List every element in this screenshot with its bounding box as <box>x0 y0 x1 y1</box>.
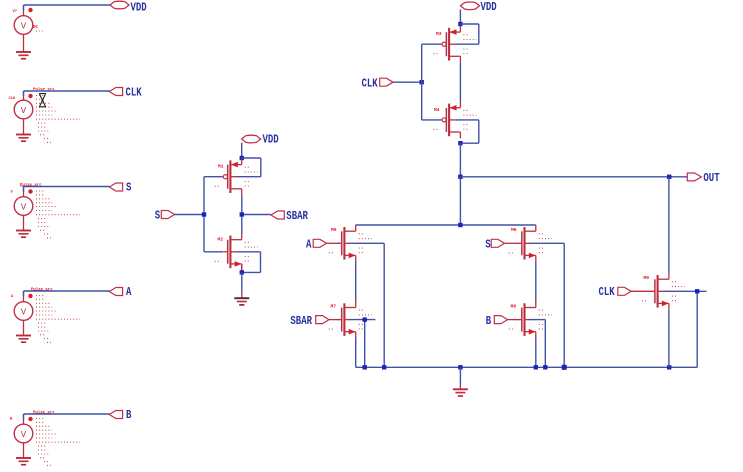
svg-text:M1: M1 <box>218 164 224 170</box>
wire (gate lead B) <box>508 319 519 321</box>
svg-text:SBAR: SBAR <box>286 209 308 223</box>
nmos M2 <box>215 233 258 270</box>
voltage source V2 (S, vpulse) <box>11 182 81 238</box>
junction <box>240 270 244 274</box>
svg-text:V: V <box>21 308 27 318</box>
svg-text:CLK: CLK <box>599 285 616 299</box>
svg-text:B: B <box>486 314 491 328</box>
pin A <box>306 237 327 251</box>
pin S (mux select) <box>485 237 504 251</box>
pin SBAR (mux select input) <box>290 314 329 328</box>
svg-text:VDD: VDD <box>481 0 497 14</box>
junction <box>458 365 462 369</box>
wire (M9 drain to OUT) <box>668 177 670 273</box>
wire (M8 source to rail) <box>535 338 537 368</box>
pin B <box>486 314 508 328</box>
pmos M4 <box>433 102 476 139</box>
svg-text:SBAR: SBAR <box>290 314 312 328</box>
wire (M2 source) <box>241 264 243 272</box>
nmos M9 <box>642 273 685 310</box>
svg-text:B: B <box>126 408 131 422</box>
wire <box>24 291 110 296</box>
wire (gate lead A) <box>327 242 340 244</box>
pin S (inverter input) <box>155 208 175 222</box>
wire <box>24 91 110 96</box>
wire <box>175 214 204 216</box>
svg-text:M6: M6 <box>511 227 517 233</box>
wire (M3 bulk tie) <box>455 24 479 44</box>
svg-text:M5: M5 <box>331 227 337 233</box>
pin CLK (evaluate clock) <box>599 285 632 299</box>
pin VDD <box>110 1 147 15</box>
svg-text:V7: V7 <box>13 10 18 14</box>
wire (ground rail) <box>356 366 698 368</box>
wire <box>241 272 243 297</box>
svg-text:DC: DC <box>33 26 39 30</box>
wire (M7 bulk) <box>350 320 376 368</box>
wire (M9 source to rail) <box>668 310 670 368</box>
wire (M6 bulk drop) <box>530 243 565 367</box>
voltage source V1 (CLK, vpulse) <box>9 87 81 142</box>
svg-text:V: V <box>21 203 27 213</box>
wire (M2 bulk tie) <box>236 252 260 273</box>
nmos M7 <box>329 301 372 338</box>
pin VDD (dynamic gate supply) <box>461 0 497 14</box>
junction <box>543 365 547 369</box>
svg-text:S: S <box>155 208 160 222</box>
svg-text:M7: M7 <box>331 304 337 310</box>
wire (M4 bulk tie) <box>455 120 479 143</box>
nmos M5 <box>329 225 372 262</box>
wire <box>241 143 243 156</box>
svg-text:CLK: CLK <box>9 97 17 101</box>
svg-text:V: V <box>21 430 27 440</box>
wire (OUT rail) <box>460 176 687 178</box>
junction <box>420 80 424 84</box>
svg-text:A: A <box>306 237 312 251</box>
junction <box>363 365 367 369</box>
svg-text:S: S <box>126 181 131 195</box>
junction <box>458 22 462 26</box>
pin VDD (inverter supply) <box>242 133 279 147</box>
wire (M9 bulk) <box>663 291 707 367</box>
junction <box>240 156 244 160</box>
wire (node to pulldown rail) <box>459 177 461 225</box>
ground <box>453 389 468 396</box>
pin CLK <box>109 85 142 99</box>
wire <box>459 9 461 22</box>
wire <box>24 414 110 419</box>
wire (input vertical) <box>204 177 223 252</box>
svg-text:S: S <box>485 237 490 251</box>
svg-text:M9: M9 <box>644 275 650 281</box>
svg-text:M3: M3 <box>436 31 442 37</box>
wire (gate of M1) <box>204 176 223 178</box>
wire (gate lead SBAR) <box>329 319 339 321</box>
wire (M2 drain) <box>241 217 243 234</box>
ground <box>234 298 249 305</box>
wire (inverter output node) <box>242 195 271 215</box>
pin OUT <box>687 171 719 185</box>
voltage source V4 (B, vpulse) <box>10 410 80 466</box>
pin SBAR (inverter output) <box>271 209 308 223</box>
wire (M6 source to M8 drain) <box>535 262 537 302</box>
svg-text:M2: M2 <box>218 237 224 243</box>
junction <box>363 317 367 321</box>
junction <box>667 365 671 369</box>
svg-text:VDD: VDD <box>131 1 147 15</box>
vpulse waveform glyph <box>39 94 46 107</box>
wire (M5 bulk drop) <box>350 243 385 367</box>
svg-text:VDD: VDD <box>263 133 279 147</box>
svg-text:M8: M8 <box>511 304 517 310</box>
pin B <box>109 408 131 422</box>
wire (dynamic node) <box>459 143 461 177</box>
junction <box>458 141 462 145</box>
junction <box>458 223 462 227</box>
wire (clock gate riser) <box>422 44 442 120</box>
junction <box>562 365 567 370</box>
junction <box>458 175 462 179</box>
wire <box>393 81 422 83</box>
wire (M8 bulk drop) <box>530 320 546 368</box>
pin S <box>109 181 131 195</box>
junction <box>240 212 244 216</box>
junction <box>667 175 671 179</box>
junction <box>382 365 386 369</box>
wire (gate lead S) <box>505 242 520 244</box>
junction <box>534 365 538 369</box>
pin A <box>109 285 132 299</box>
pin CLK (precharge clock) <box>362 77 394 91</box>
wire <box>459 367 461 389</box>
svg-text:V: V <box>21 22 27 32</box>
voltage source V3 (A, vpulse) <box>11 287 80 343</box>
wire <box>24 5 111 10</box>
svg-text:CLK: CLK <box>126 85 143 99</box>
wire <box>24 187 110 192</box>
wire (M3 drain to M4 source) <box>459 63 461 102</box>
svg-text:OUT: OUT <box>703 171 719 185</box>
wire (M5 source to M7 drain) <box>355 262 357 302</box>
svg-text:V: V <box>21 106 27 116</box>
nmos M8 <box>509 301 552 338</box>
wire (pulldown top rail) <box>356 224 536 226</box>
voltage source V7 (VDD supply, vdc) <box>13 5 44 59</box>
pmos M3 <box>433 26 476 63</box>
wire (M1 bulk tie) <box>236 158 260 177</box>
junction <box>202 212 206 216</box>
wire (gate lead CLK) <box>631 290 652 292</box>
svg-text:M4: M4 <box>434 107 440 113</box>
wire (M7 source to rail) <box>355 338 357 368</box>
pmos M1 <box>215 158 258 195</box>
svg-text:A: A <box>126 285 132 299</box>
svg-text:CLK: CLK <box>362 77 379 91</box>
nmos M6 <box>509 225 552 262</box>
junction <box>695 289 699 293</box>
